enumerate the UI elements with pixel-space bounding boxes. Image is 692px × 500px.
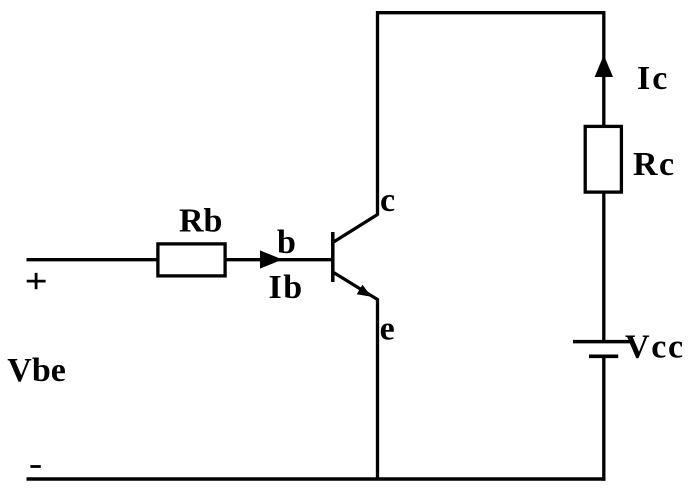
svg-text:b: b	[277, 224, 296, 261]
svg-text:Rc: Rc	[633, 146, 676, 183]
svg-text:Ic: Ic	[637, 60, 669, 97]
svg-text:Vbe: Vbe	[7, 352, 66, 389]
svg-text:Vcc: Vcc	[625, 329, 685, 366]
svg-text:Ib: Ib	[269, 269, 304, 306]
svg-text:e: e	[380, 310, 395, 347]
svg-text:Rb: Rb	[179, 202, 222, 239]
svg-text:c: c	[380, 182, 395, 219]
